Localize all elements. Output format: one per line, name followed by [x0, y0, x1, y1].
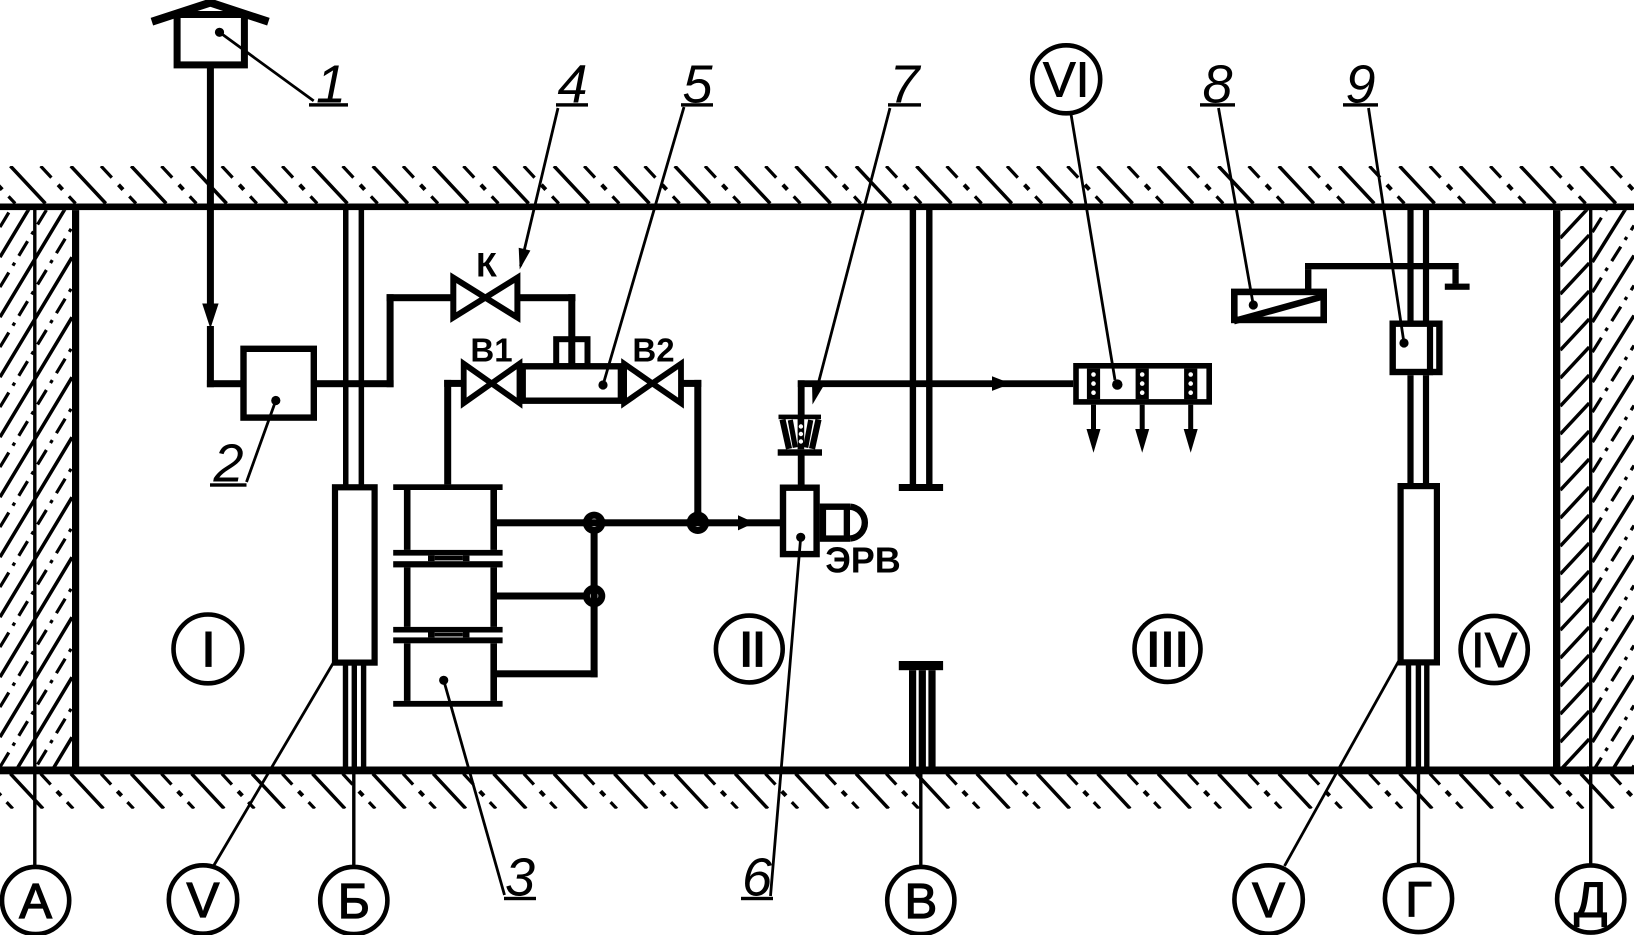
- room I marker: [174, 615, 243, 684]
- label 9 with leader: [1343, 55, 1409, 348]
- draught stabilizer 8: [1234, 292, 1325, 321]
- svg-text:V: V: [187, 874, 220, 928]
- svg-text:Г: Г: [1405, 873, 1432, 927]
- axis marker В: [887, 770, 954, 934]
- label 8 with leader: [1200, 55, 1258, 310]
- vent outlet pipe with hook: [1305, 263, 1470, 290]
- pipe valve B2 down: [681, 380, 701, 527]
- svg-text:4: 4: [557, 55, 587, 115]
- svg-text:IV: IV: [1471, 624, 1518, 678]
- left wall edge line: [72, 210, 79, 766]
- ceiling line: [0, 204, 1634, 211]
- wall axis line and marker А: [2, 210, 69, 934]
- junction node: [583, 512, 605, 534]
- axis marker Г: [1385, 770, 1452, 932]
- air heater VI with outlet arrows: [1076, 366, 1209, 453]
- pipe from valve K to mixer: [517, 294, 575, 366]
- left wall hatch: [0, 77, 72, 887]
- air intake pipe with down arrow: [202, 64, 247, 387]
- svg-text:1: 1: [316, 55, 346, 115]
- svg-text:9: 9: [1345, 55, 1375, 115]
- wall axis line and marker Д: [1557, 210, 1624, 933]
- axis marker Б: [320, 770, 387, 934]
- valve B2: [624, 364, 681, 403]
- pipe valve B1 to cylinders: [444, 380, 464, 485]
- svg-text:VI: VI: [1043, 54, 1089, 108]
- cylinder 3 port line: [497, 670, 598, 677]
- room III marker: [1135, 616, 1201, 682]
- damper 9 box on chimney: [1393, 321, 1440, 376]
- svg-text:А: А: [19, 875, 52, 929]
- svg-text:5: 5: [682, 55, 713, 115]
- partition Г lower lines: [1406, 666, 1430, 767]
- gas burner 7: [778, 415, 822, 456]
- gas cylinder battery 3: [393, 484, 502, 706]
- chimney pipe upper (axis Г): [1407, 210, 1429, 321]
- right wall edge line: [1553, 210, 1560, 766]
- junction node: [583, 585, 605, 607]
- room II marker: [716, 616, 783, 683]
- heat exchanger 2: [244, 349, 314, 418]
- svg-text:8: 8: [1202, 55, 1232, 115]
- marker VI with leader: [1032, 45, 1122, 390]
- flow arrow on heater pipe: [992, 376, 1011, 391]
- ceiling hatch band: [0, 166, 1634, 204]
- room IV marker: [1461, 616, 1528, 683]
- vent duct V left (chimney box): [335, 487, 375, 662]
- deflector 1 (roof vent): [152, 3, 269, 65]
- floor hatch band: [0, 774, 1634, 809]
- svg-text:В2: В2: [632, 332, 674, 369]
- manifold main line to ERV: [497, 519, 780, 526]
- label 4 with arrow leader: [519, 55, 588, 270]
- label 1 with leader: [215, 28, 348, 115]
- svg-text:В1: В1: [470, 332, 512, 369]
- svg-text:7: 7: [889, 55, 921, 115]
- mixer 5 body: [523, 339, 621, 400]
- svg-text:V: V: [1252, 874, 1285, 928]
- svg-text:Б: Б: [338, 875, 370, 929]
- vent duct marker V right with leader: [1234, 632, 1419, 934]
- vent duct V right (chimney box): [1401, 486, 1437, 662]
- flow arrow to ERV: [738, 515, 755, 530]
- partition В lower segment with end cap: [899, 661, 943, 767]
- svg-text:6: 6: [742, 848, 773, 908]
- svg-text:ЭРВ: ЭРВ: [825, 540, 901, 581]
- cylinder 2 port line: [497, 593, 594, 600]
- label 2 with leader: [210, 396, 280, 494]
- valve B1: [464, 364, 520, 403]
- floor line: [0, 767, 1634, 775]
- right wall hatch outer: [1592, 136, 1634, 863]
- valve K: [453, 278, 517, 318]
- junction node: [687, 512, 709, 534]
- partition Б upper double line: [343, 210, 364, 485]
- svg-text:2: 2: [212, 434, 243, 494]
- partition В upper segment with end cap: [899, 210, 943, 491]
- svg-text:3: 3: [505, 848, 535, 908]
- partition Б lower lines: [343, 666, 367, 767]
- pipe damper to vent hook: [1305, 269, 1311, 292]
- pipe burner to air heater: [798, 380, 1073, 416]
- label 6 with leader: [741, 533, 805, 908]
- chimney pipe middle (axis Г): [1407, 375, 1429, 483]
- pipe from heater to valve K: [317, 294, 453, 387]
- label 7 with arrow leader: [812, 55, 921, 405]
- label 3 with leader: [439, 676, 536, 908]
- right wall hatch inner: [1560, 179, 1589, 798]
- label 5 with leader: [598, 55, 713, 390]
- svg-text:Д: Д: [1574, 874, 1607, 928]
- svg-text:К: К: [476, 247, 497, 285]
- manifold riser: [591, 519, 598, 677]
- solenoid valve ERV: [783, 455, 865, 554]
- vent duct marker V left with leader: [169, 631, 356, 934]
- svg-text:В: В: [904, 875, 937, 929]
